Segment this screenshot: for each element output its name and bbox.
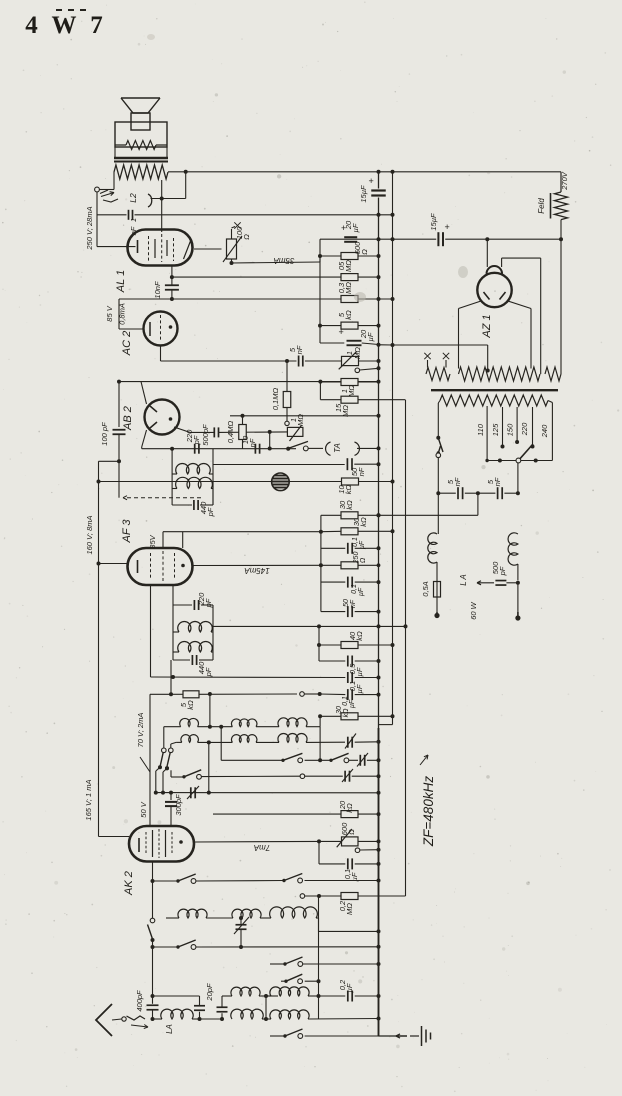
- tube AC2 envelope: [144, 312, 178, 346]
- resistor 0.1 MOhm: [286, 361, 288, 392]
- IF1 winding top: [176, 463, 211, 474]
- mains switch left: [436, 436, 440, 440]
- svg-text:L2: L2: [128, 193, 138, 203]
- wire transformer left lead: [113, 172, 115, 190]
- switch row 1036: [270, 1035, 284, 1037]
- wire 85V row: [119, 298, 393, 300]
- svg-text:Feld: Feld: [537, 198, 546, 214]
- svg-text:50: 50: [343, 599, 350, 607]
- wire row 345 to transformer tap: [393, 344, 488, 346]
- band switch branch A: [163, 727, 165, 748]
- switch on row 448.5: [287, 447, 290, 450]
- wire 35mA: [232, 262, 321, 263]
- svg-text:kΩ: kΩ: [186, 700, 195, 710]
- dashed coupling arrow: [123, 497, 201, 499]
- svg-text:MΩ: MΩ: [344, 260, 353, 272]
- AZ1 cathode pin up: [486, 239, 488, 267]
- wire ZF arrow and label: [420, 755, 428, 765]
- resistor 250 Ohm cathode: [319, 563, 323, 567]
- capacitor 220pF IF2: [151, 604, 174, 606]
- output transformer core: [114, 157, 168, 159]
- AF3 cathode bar: [137, 560, 139, 573]
- IF transformer 1 box: [171, 449, 173, 505]
- trimmer cap row 776: [344, 771, 346, 782]
- wire row 515 to trafo tap drop: [379, 514, 478, 516]
- svg-text:AF 3: AF 3: [121, 519, 133, 544]
- wire row 694 left corner: [150, 693, 171, 695]
- pot 600 tap switch: [355, 848, 360, 853]
- connector arc L2: [148, 194, 152, 207]
- wire coilA drop to row 760: [219, 725, 223, 729]
- svg-text:0,8mA: 0,8mA: [118, 303, 127, 325]
- antenna coil: [151, 1017, 155, 1021]
- transformer 4V winding: [426, 368, 450, 381]
- mains chokes: [428, 533, 437, 563]
- transformer core: [431, 389, 558, 391]
- switch row 776: [165, 766, 169, 770]
- AB2 bottom pin: [142, 430, 147, 447]
- capacitor 220pF IF1: [194, 444, 196, 454]
- wire row 626 AVC bus: [213, 625, 406, 627]
- wire riser 320.9 lower: [320, 565, 322, 611]
- wire AL1 grid from transformer: [161, 180, 163, 199]
- AK2 internal electrodes: [138, 838, 140, 852]
- capacitor 10nF AB2: [254, 444, 256, 454]
- svg-text:nF: nF: [357, 467, 366, 476]
- tap 150: [516, 407, 518, 441]
- AF3 top pins: [162, 532, 164, 548]
- wire pot left down: [269, 432, 271, 449]
- tube AF3 envelope: [128, 548, 193, 585]
- tube AL1 envelope: [128, 230, 193, 266]
- resistor 10 kOhm: [342, 478, 359, 485]
- resistor 5 kOhm: [171, 693, 183, 695]
- svg-text:kΩ: kΩ: [344, 310, 353, 320]
- osc coils row 742: [176, 741, 182, 743]
- antenna symbol: [96, 1004, 112, 1036]
- wire osc feed drop: [208, 692, 212, 696]
- svg-text:85V: 85V: [148, 534, 157, 548]
- transformer HV winding: [459, 367, 541, 381]
- svg-text:µF: µF: [345, 983, 354, 992]
- AC2 grid: [160, 315, 162, 342]
- wire coilA2 drop to row 792: [208, 742, 210, 792]
- wire Feld to rail B: [560, 220, 562, 374]
- band switch branch B: [171, 742, 176, 744]
- bus line 1 ground: [378, 172, 380, 189]
- transformer right filament winding: [545, 367, 561, 381]
- wire screen row 531.7: [163, 531, 321, 533]
- capacitor 15uF electrolytic top: [371, 189, 386, 191]
- osc coils row 727: [164, 726, 181, 728]
- tuning indicator lamp: [272, 473, 290, 491]
- capacitor 50nF AVC: [321, 611, 345, 613]
- tap 125: [502, 407, 504, 445]
- wire AB2 anode row: [119, 381, 379, 383]
- svg-text:AK 2: AK 2: [123, 871, 135, 896]
- svg-text:pF: pF: [204, 667, 213, 677]
- transformer primary winding: [440, 395, 548, 406]
- resistor 30 kOhm decoupling: [341, 512, 358, 519]
- wire row 677: [151, 676, 346, 679]
- AK2 bottom pin: [152, 862, 154, 919]
- svg-text:60 W: 60 W: [469, 601, 478, 619]
- svg-text:250 V; 28mA: 250 V; 28mA: [85, 206, 94, 250]
- svg-text:50 V: 50 V: [139, 801, 148, 817]
- wire coilC drop to row 760: [319, 727, 321, 761]
- resistor 1 MOhm grid: [319, 382, 321, 400]
- wire 50nF row 464.5: [213, 464, 345, 466]
- wire row 981: [281, 980, 285, 982]
- svg-text:30: 30: [336, 706, 343, 714]
- terminal L2 jack: [95, 187, 100, 192]
- line filter row 493: [436, 491, 440, 495]
- svg-text:MΩ: MΩ: [296, 414, 305, 426]
- wire AF3 cathode: [97, 562, 101, 566]
- svg-text:+: +: [368, 176, 373, 186]
- speaker voice coil resistor: [126, 141, 156, 150]
- svg-text:MΩ: MΩ: [353, 347, 362, 359]
- wire row 931 to bus: [318, 918, 320, 931]
- AC2 anode dot: [169, 325, 173, 329]
- ground symbol: [421, 1026, 423, 1046]
- fuse 0.5A: [434, 582, 441, 598]
- resistor 0.4 MOhm: [242, 416, 244, 425]
- field coil Feld: [555, 192, 568, 220]
- svg-text:165 V; 1 mA: 165 V; 1 mA: [84, 779, 93, 820]
- svg-text:500pF: 500pF: [201, 424, 210, 446]
- capacitor to row 996: [198, 1017, 202, 1021]
- capacitor 5nF mains 2: [478, 492, 496, 494]
- resistor 5 kOhm column: [319, 299, 321, 326]
- AF3 grids: [150, 553, 152, 580]
- wire +270V rail: [168, 171, 561, 173]
- svg-text:ZF=480kHz: ZF=480kHz: [421, 776, 436, 847]
- capacitor 440pF IF2: [173, 659, 190, 661]
- resistor 500 Ohm: [320, 255, 342, 257]
- switch row 947: [153, 946, 178, 948]
- switch under pot: [355, 368, 360, 373]
- wire 270V drop: [560, 172, 562, 192]
- lamp lead 60W: [517, 583, 519, 612]
- wire lamp to 10k: [289, 481, 341, 483]
- svg-text:kΩ: kΩ: [345, 500, 354, 510]
- tube AK2 envelope: [129, 826, 194, 862]
- switch on AK2 vertical: [150, 918, 155, 923]
- svg-text:400pF: 400pF: [135, 990, 144, 1012]
- resistor 40 kOhm: [319, 644, 342, 646]
- svg-text:300pF: 300pF: [174, 794, 183, 816]
- input coil box: [265, 996, 267, 1019]
- svg-text:+: +: [444, 222, 449, 232]
- paper speckles: [201, 166, 202, 167]
- svg-text:20pF: 20pF: [205, 983, 214, 1002]
- AZ1 filament pin loop: [501, 258, 503, 267]
- IF transformer 2 box: [172, 605, 174, 660]
- capacitor 0.1uF row 694: [347, 689, 349, 700]
- svg-text:220: 220: [520, 422, 529, 436]
- wire 160V feed: [98, 461, 100, 836]
- AC2 bottom pin: [160, 346, 162, 362]
- svg-text:µF: µF: [366, 332, 375, 341]
- svg-text:+: +: [338, 327, 343, 337]
- AL1 grids: [148, 236, 150, 261]
- wire 100ohm top: [194, 248, 222, 250]
- resistor 20 kOhm row 814: [213, 813, 342, 815]
- wire 5nF center to ground bus: [477, 493, 479, 515]
- svg-text:15µF: 15µF: [359, 185, 368, 203]
- capacitor 0.1uF row 677: [347, 672, 349, 683]
- capacitor 0.5uF: [319, 660, 345, 662]
- wire riser x319: [318, 626, 320, 661]
- print marks: [56, 9, 62, 11]
- tube AZ1 envelope: [477, 273, 511, 307]
- AL1 cathode: [97, 246, 136, 248]
- potentiometer 1 MOhm tone: [340, 360, 343, 362]
- TA pickup connector: [326, 442, 331, 455]
- svg-text:nF: nF: [248, 438, 257, 447]
- capacitor 0.2uF row 996: [319, 995, 346, 997]
- svg-text:AC 2: AC 2: [121, 331, 133, 356]
- capacitor 300pF: [170, 793, 172, 800]
- wire row 239 rail B: [320, 238, 436, 240]
- switch row 881: [151, 879, 155, 883]
- svg-text:0,5A: 0,5A: [421, 581, 430, 596]
- wire row 415.8 diode load: [230, 415, 379, 417]
- resistor 1.5 MOhm: [320, 399, 341, 401]
- svg-text:15µF: 15µF: [429, 213, 438, 231]
- IF1 winding bottom: [176, 477, 213, 488]
- trimmer cap row 792: [190, 787, 192, 798]
- svg-text:4 W 7: 4 W 7: [25, 12, 107, 39]
- wire row 515 decoupling: [321, 514, 342, 516]
- capacitor 100pF: [118, 382, 120, 427]
- svg-text:µF: µF: [359, 540, 366, 549]
- svg-text:MΩ: MΩ: [347, 385, 356, 397]
- wire 5nF to pot: [305, 360, 341, 362]
- output transformer primary winding: [114, 165, 168, 179]
- wire 70V feed to AK2 grid: [149, 694, 151, 827]
- svg-text:nF: nF: [453, 477, 462, 486]
- capacitor 400pF: [151, 994, 155, 998]
- svg-text:0,1: 0,1: [352, 537, 359, 547]
- potentiometer 1 MOhm volume: [287, 427, 303, 436]
- IF2 winding bottom: [178, 641, 213, 652]
- svg-text:150: 150: [506, 423, 515, 436]
- svg-text:10nF: 10nF: [153, 281, 162, 299]
- wire AB2 bottom row 448.5: [142, 448, 296, 450]
- svg-text:L A: L A: [459, 574, 468, 586]
- capacitor 15uF row 239: [437, 232, 439, 246]
- wire anode node AL1: [151, 198, 186, 200]
- capacitor 50nF grid: [346, 458, 348, 470]
- AZ1 plates: [484, 292, 490, 300]
- capacitor 5nF mains 1: [457, 487, 459, 499]
- wire 500pF to pot: [219, 431, 288, 434]
- svg-text:µF: µF: [355, 667, 364, 676]
- svg-text:pF: pF: [498, 566, 507, 576]
- AC2 cathode: [149, 322, 151, 336]
- wire 250V;28mA feed: [96, 192, 98, 247]
- AL1 anode: [184, 241, 191, 259]
- wire osc coil left vertical: [170, 660, 172, 694]
- svg-text:70 V; 2mA: 70 V; 2mA: [136, 713, 145, 748]
- capacitor 1nF: [128, 210, 130, 220]
- svg-text:TA: TA: [333, 443, 342, 453]
- svg-text:250: 250: [353, 552, 360, 565]
- capacitor 0.1uF row 864: [318, 841, 320, 864]
- AK2 anode row 841.5: [194, 840, 319, 843]
- switch row 694: [300, 692, 305, 697]
- svg-text:AB 2: AB 2: [122, 406, 134, 431]
- wire AVC riser 318.5: [318, 896, 320, 1019]
- svg-text:AL 1: AL 1: [115, 270, 127, 293]
- wire third bus x405: [405, 400, 407, 896]
- AZ1 filament leads: [459, 301, 482, 309]
- mains lead right: [517, 463, 519, 493]
- wire row 964: [270, 963, 284, 965]
- wire row 792.8: [156, 792, 379, 794]
- trimmer padder row 742: [347, 737, 349, 748]
- input coils row 1019: [231, 1009, 263, 1019]
- svg-text:µF: µF: [351, 223, 360, 232]
- svg-text:pF: pF: [204, 598, 213, 608]
- voltage selector: [487, 460, 516, 462]
- svg-text:nF: nF: [493, 477, 502, 486]
- svg-text:125: 125: [491, 423, 500, 436]
- resistor 0.2 MOhm row 896: [300, 894, 305, 899]
- svg-text:7mA: 7mA: [254, 843, 270, 852]
- svg-text:110: 110: [476, 423, 485, 436]
- svg-text:MΩ: MΩ: [344, 282, 353, 294]
- svg-text:kΩ: kΩ: [345, 803, 354, 813]
- svg-text:µF: µF: [349, 699, 356, 708]
- svg-text:0,1MΩ: 0,1MΩ: [271, 388, 280, 411]
- trimmer cap row 760: [359, 755, 361, 766]
- svg-text:AZ 1: AZ 1: [481, 314, 493, 338]
- svg-text:kΩ: kΩ: [359, 517, 368, 527]
- resistor 0.5 MOhm: [172, 276, 342, 278]
- wire row 481.5: [99, 481, 272, 483]
- tap 110: [486, 406, 488, 461]
- switch row 760: [221, 759, 282, 761]
- svg-text:270V: 270V: [560, 171, 569, 191]
- resistor 30 kOhm row 716: [319, 716, 321, 726]
- svg-text:0,4MΩ: 0,4MΩ: [226, 421, 235, 444]
- svg-text:85 V: 85 V: [105, 305, 114, 321]
- antenna wire: [112, 1019, 122, 1020]
- capacitor 20pF: [200, 1018, 223, 1020]
- svg-text:LA: LA: [165, 1024, 174, 1034]
- svg-text:Ω: Ω: [360, 249, 369, 255]
- loudspeaker: [121, 97, 160, 99]
- trimmer row 918-947: [236, 924, 247, 926]
- wire AB2 anode to 500pF: [174, 427, 214, 432]
- tap 220: [532, 407, 534, 445]
- wire speaker to transformer: [114, 147, 116, 158]
- mixer coils row 918: [166, 917, 179, 919]
- AB2 top pin: [141, 382, 147, 404]
- ground wire: [379, 1035, 408, 1037]
- IF2 winding top: [178, 621, 213, 632]
- svg-text:160 V; 8mA: 160 V; 8mA: [85, 515, 94, 554]
- svg-text:Ω: Ω: [360, 557, 367, 563]
- capacitor 500pF: [213, 427, 215, 437]
- tap 240: [548, 401, 552, 403]
- svg-text:kΩ: kΩ: [355, 631, 364, 641]
- primary taps: [438, 401, 440, 404]
- capacitor 0.1uF screen: [321, 547, 345, 549]
- svg-text:240: 240: [540, 424, 549, 438]
- AL1 bottom pin: [171, 265, 173, 277]
- resistor 30 kOhm screen: [341, 528, 358, 535]
- coils row 996 left: [231, 987, 260, 996]
- svg-text:nF: nF: [350, 599, 357, 608]
- resistor 100 Ohm variable: [227, 239, 237, 259]
- svg-text:kΩ: kΩ: [344, 484, 353, 494]
- svg-text:nF: nF: [295, 345, 304, 354]
- capacitor 20uF row 242: [319, 239, 321, 256]
- tube AB2 envelope: [145, 400, 180, 435]
- svg-text:MΩ: MΩ: [341, 405, 350, 417]
- svg-text:µF: µF: [358, 587, 365, 596]
- capacitor 20uF row 345: [320, 342, 344, 344]
- capacitor 5nF: [298, 356, 300, 367]
- AF3 bottom pins: [150, 585, 152, 677]
- svg-text:MΩ: MΩ: [345, 903, 354, 915]
- capacitor 500pF mains: [516, 581, 520, 585]
- svg-text:35mA: 35mA: [274, 256, 295, 265]
- svg-text:0,1: 0,1: [351, 584, 358, 594]
- svg-text:0,1: 0,1: [342, 696, 349, 706]
- potentiometer 600 Ohm: [319, 840, 342, 842]
- svg-text:Ω: Ω: [242, 234, 251, 240]
- svg-text:145mA: 145mA: [244, 566, 269, 575]
- svg-text:µF: µF: [355, 684, 364, 693]
- AF3 anode dot: [181, 564, 185, 568]
- svg-text:pF: pF: [206, 507, 215, 517]
- wire AF3 anode row 565: [193, 564, 321, 566]
- capacitor 0.1uF cathode: [321, 581, 345, 583]
- capacitor 440pF IF1: [172, 504, 192, 506]
- AK2 cathode feed: [99, 836, 130, 838]
- coils row 996: [266, 995, 278, 997]
- wire grid rail y=215: [97, 214, 127, 216]
- bus line 2: [392, 172, 394, 725]
- svg-text:kΩ: kΩ: [343, 708, 350, 718]
- capacitor 10nF: [170, 275, 174, 279]
- resistor 0.3 MOhm: [341, 296, 358, 303]
- svg-text:100 pF: 100 pF: [100, 422, 109, 446]
- AB2 diode plates: [150, 406, 157, 412]
- wire riser 320.9: [320, 515, 322, 565]
- svg-text:1: 1: [129, 218, 138, 222]
